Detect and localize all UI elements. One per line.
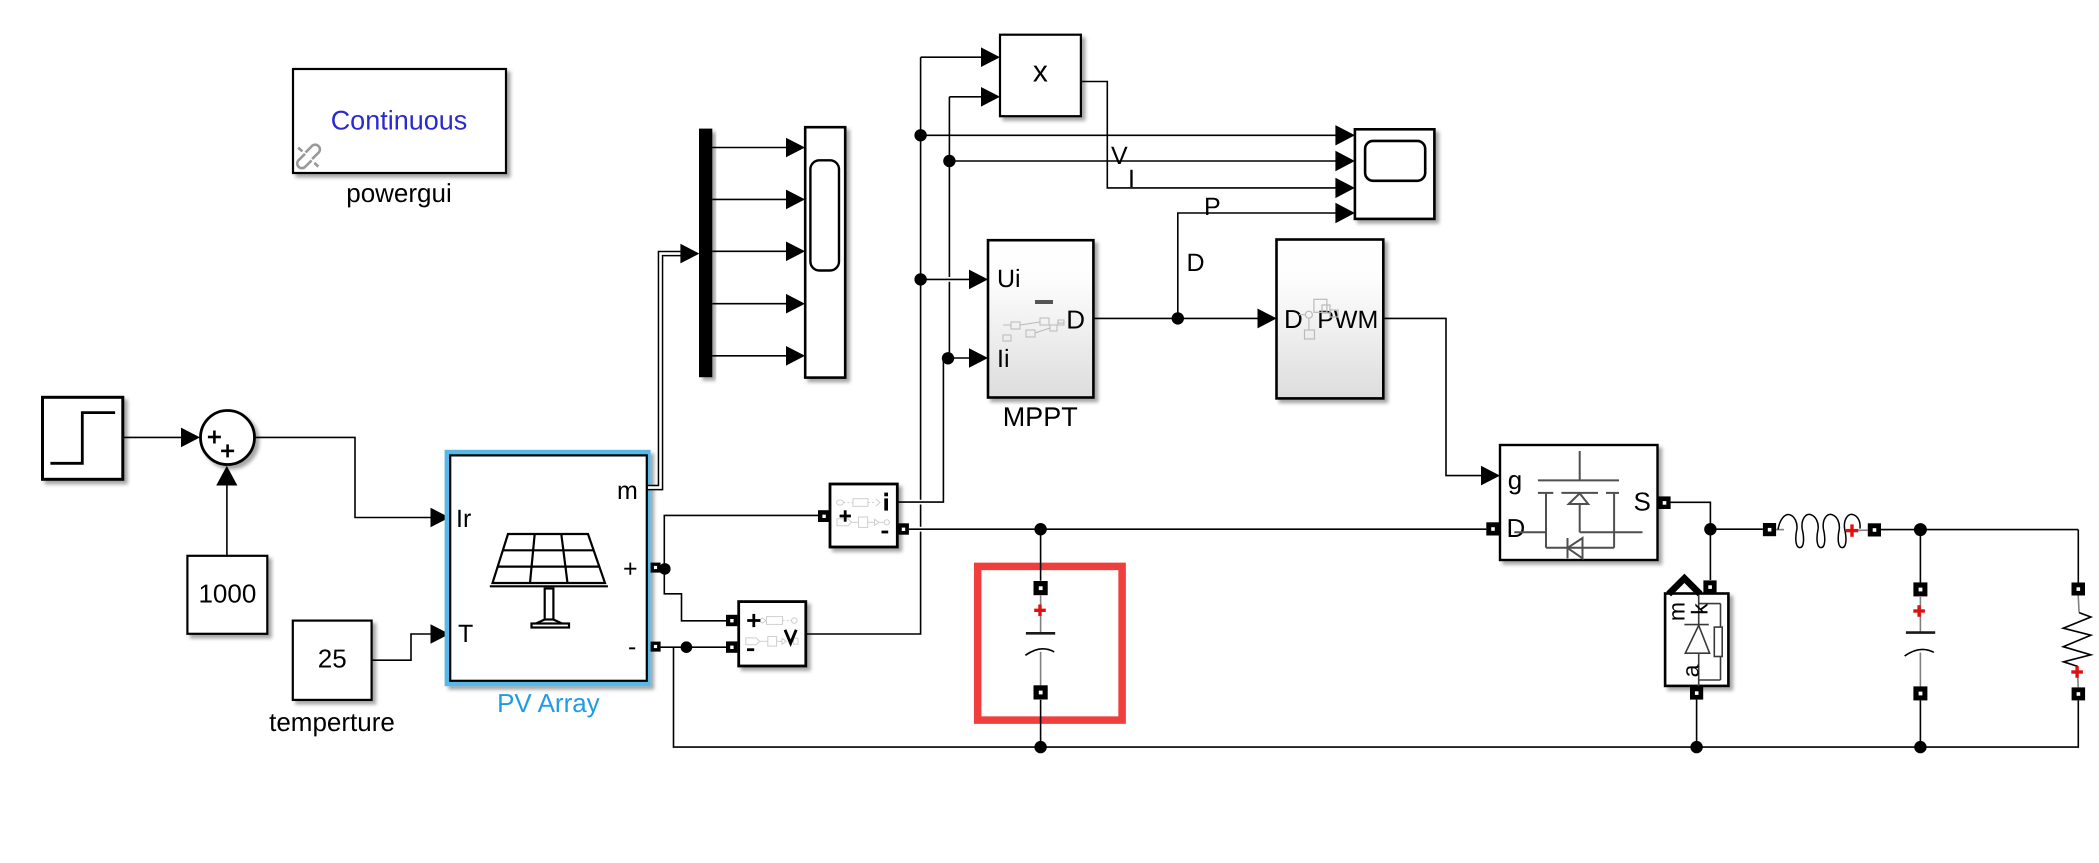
- node junction above box capacitor: [1034, 523, 1046, 535]
- diode bottom port: [1690, 686, 1703, 699]
- node V junctions: [914, 129, 926, 141]
- wire I to MPPT Ii: [948, 357, 970, 359]
- red annotation box: [978, 566, 1122, 720]
- resistor bottom port: [2072, 687, 2086, 700]
- wire node to inductor: [1710, 528, 1763, 530]
- svg-text:Ii: Ii: [997, 345, 1010, 373]
- node S junction: [1704, 523, 1716, 535]
- capacitor top port: [1913, 582, 1927, 596]
- wire sum output to PV Ir: [255, 437, 431, 517]
- inductor right port: [1868, 523, 1881, 536]
- box capacitor top port: [1034, 581, 1048, 595]
- box capacitor bottom port: [1034, 685, 1048, 699]
- MOSFET S port: [1658, 496, 1671, 509]
- svg-text:-: -: [628, 633, 636, 661]
- wire step to sum: [123, 436, 182, 438]
- wire V to MPPT Ui: [921, 278, 970, 280]
- wire PWM output to MOSFET g: [1383, 318, 1482, 475]
- wire MPPT D output to PWM: [1093, 317, 1257, 319]
- broken link icon: [297, 145, 320, 169]
- PV - port: [651, 642, 661, 652]
- wire P to scope: [1178, 213, 1337, 318]
- wire node down to capacitor: [1919, 530, 1921, 583]
- solar panel icon: [490, 534, 608, 628]
- wire V vertical from voltmeter (with crossing gaps): [806, 57, 982, 634]
- wire I from ammeter (with jog and crossing gap): [897, 97, 982, 502]
- svg-text:D: D: [1284, 304, 1303, 334]
- svg-text:PV Array: PV Array: [497, 688, 600, 718]
- svg-text:g: g: [1508, 465, 1522, 495]
- wire diode bottom to rail: [1696, 700, 1698, 748]
- MOSFET D port: [1486, 522, 1499, 535]
- ammeter out port: [898, 523, 909, 534]
- node rail junction under box capacitor: [1034, 741, 1046, 753]
- capacitor C1 (inside red box): [1025, 529, 1055, 747]
- svg-text:x: x: [1033, 56, 1048, 89]
- node PV - junction: [681, 641, 693, 653]
- ammeter block i: [830, 484, 897, 547]
- sum block Add: [201, 411, 255, 465]
- wire V to scope line1: [921, 134, 1337, 136]
- svg-text:a: a: [1677, 664, 1703, 677]
- wire bottom rail: [674, 647, 2079, 747]
- PWM input arrow: [1258, 309, 1277, 329]
- node rail junction under diode: [1690, 741, 1702, 753]
- node I junctions: [943, 155, 955, 167]
- svg-text:k: k: [1687, 603, 1713, 615]
- demux Demux: [699, 129, 712, 378]
- diode top port: [1703, 580, 1716, 593]
- inductor left port: [1763, 523, 1776, 536]
- svg-text:T: T: [458, 620, 473, 648]
- svg-text:D: D: [1507, 513, 1526, 543]
- svg-text:Ir: Ir: [456, 505, 471, 533]
- resistor top port: [2072, 583, 2086, 596]
- svg-text:P: P: [1204, 193, 1221, 221]
- product block x: [1000, 35, 1081, 117]
- scope5 block (5-input scope): [805, 127, 845, 377]
- wire MOSFET S to node: [1671, 502, 1711, 580]
- wire PV - to voltmeter -: [661, 646, 727, 648]
- wire I to scope line2: [949, 160, 1336, 162]
- PV Array block: [445, 450, 651, 686]
- constant block 1000: [187, 556, 267, 634]
- powergui block: [293, 69, 506, 173]
- x input arrows: [981, 47, 1000, 67]
- PWM mini preview icon: [1299, 299, 1338, 339]
- resistor R load: [2063, 596, 2091, 688]
- MPPT input arrows Ui Ii: [969, 270, 988, 290]
- svg-text:D: D: [1187, 249, 1205, 277]
- svg-text:V: V: [1111, 142, 1128, 170]
- voltmeter - port: [726, 641, 737, 652]
- svg-text:MPPT: MPPT: [1003, 402, 1078, 432]
- node rail junction under capacitor: [1914, 741, 1926, 753]
- wire m vector double line: [648, 254, 682, 488]
- PV + port: [651, 563, 661, 573]
- MPPT mini preview icon: [1003, 300, 1064, 341]
- wire PV + to voltmeter + (staircase): [664, 569, 726, 621]
- wire ammeter out to MOSFET D: [909, 528, 1486, 530]
- wire node to resistor top: [2077, 530, 2079, 583]
- demux output wires to scope: [712, 148, 787, 356]
- svg-text:1000: 1000: [198, 579, 256, 609]
- PWM block: [1277, 240, 1384, 399]
- capacitor C (output): [1905, 597, 1936, 687]
- svg-text:S: S: [1634, 487, 1651, 517]
- diode block Diode: [1664, 578, 1729, 686]
- svg-text:m: m: [617, 477, 638, 505]
- node D junction: [1172, 312, 1184, 324]
- wire constant 1000 to sum: [226, 485, 228, 556]
- svg-text:Ui: Ui: [997, 265, 1021, 293]
- svg-text:D: D: [1066, 305, 1085, 335]
- constant block 25: [293, 621, 372, 700]
- wire PV + to ammeter +: [664, 515, 818, 569]
- MOSFET block: [1500, 445, 1658, 560]
- node PV + junction: [659, 563, 671, 575]
- svg-text:25: 25: [318, 644, 347, 674]
- scope block Scope: [1355, 129, 1435, 219]
- voltmeter block v: [739, 602, 806, 666]
- MPPT block: [988, 240, 1093, 397]
- wire inductor to output node: [1881, 529, 2078, 531]
- inductor L: [1776, 514, 1868, 547]
- scope input arrows: [1335, 125, 1355, 223]
- svg-text:I: I: [1128, 165, 1135, 193]
- svg-text:+: +: [623, 555, 638, 583]
- ammeter + port: [818, 510, 830, 522]
- svg-text:temperture: temperture: [269, 707, 395, 737]
- voltmeter + port: [726, 615, 737, 626]
- step block Step: [43, 397, 123, 479]
- svg-text:Continuous: Continuous: [331, 106, 468, 136]
- wire constant 25 to PV T: [372, 634, 431, 660]
- svg-text:powergui: powergui: [346, 178, 452, 208]
- node output junction: [1914, 523, 1927, 536]
- capacitor bottom port: [1913, 686, 1927, 700]
- wire x output P to scope line3: [1081, 82, 1336, 188]
- wire capacitor bottom to rail: [1919, 700, 1921, 747]
